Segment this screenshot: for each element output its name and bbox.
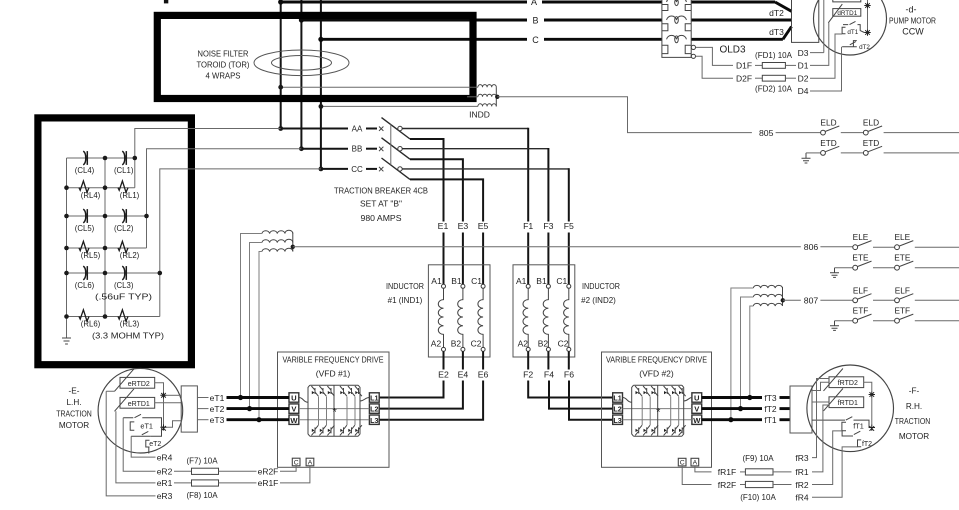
- resistor RL4: [79, 181, 89, 192]
- IND2 phase C coil: [567, 284, 571, 288]
- IND1 phase B coil: [461, 284, 465, 288]
- svg-text:U: U: [291, 394, 297, 403]
- node BB junction: [299, 146, 304, 151]
- svg-text:BB: BB: [352, 145, 363, 154]
- wire E5 column: [482, 233, 484, 285]
- fuse F7: [174, 470, 192, 472]
- wire box to fRTD1: [812, 401, 829, 403]
- svg-text:A: A: [531, 0, 537, 7]
- wire E3 column: [462, 233, 464, 285]
- wire A2 box to fR1F: [695, 466, 712, 472]
- node INDD output: [495, 95, 499, 99]
- svg-text:MOTOR: MOTOR: [899, 432, 929, 441]
- svg-text:L2: L2: [370, 405, 378, 414]
- wire 806 to ELE: [820, 246, 852, 248]
- thermal contact fT1: [812, 417, 869, 431]
- bridge outline: [632, 385, 684, 436]
- wire box to fRTD2: [812, 382, 829, 390]
- contact ETF 2: [895, 318, 900, 323]
- wire eRTD1 to junction box: [155, 402, 182, 404]
- VFD2 bridge group: [623, 385, 692, 436]
- IGBT glyphs bottom row: [635, 425, 686, 435]
- svg-text:fR2F: fR2F: [718, 480, 736, 490]
- snubber enclosure (thick box): [38, 118, 192, 365]
- svg-text:eT1: eT1: [140, 422, 153, 431]
- svg-text:(RL4): (RL4): [81, 191, 101, 200]
- ground at ETE: [830, 268, 839, 278]
- svg-text:ETF: ETF: [894, 306, 910, 316]
- VFD2 terminal L1: [613, 393, 623, 402]
- svg-text:R.H.: R.H.: [906, 402, 922, 411]
- inductor IND1 box: [428, 265, 490, 357]
- inductor INDD coil row1: [478, 85, 496, 88]
- VFD1 bridge group: [299, 385, 370, 436]
- svg-text:(RL2): (RL2): [120, 251, 140, 260]
- RTD fRTD1 box: [829, 397, 864, 408]
- svg-text:eR1: eR1: [157, 478, 173, 488]
- svg-text:U: U: [694, 394, 700, 403]
- node fT3: [747, 395, 752, 400]
- wire ground to ETF: [835, 320, 853, 322]
- fuse F8: [174, 482, 192, 484]
- svg-text:CCW: CCW: [902, 27, 924, 37]
- svg-text:E4: E4: [458, 369, 469, 379]
- IND2 phase A coil: [526, 284, 530, 288]
- VFD1 terminal V: [289, 404, 299, 413]
- svg-text:L1: L1: [613, 394, 621, 403]
- svg-text:B2: B2: [451, 339, 462, 349]
- svg-text:B: B: [532, 16, 538, 26]
- svg-text:(F10) 10A: (F10) 10A: [740, 493, 776, 502]
- fRTD2 diagonal: [824, 369, 843, 391]
- wire fT2 thick from V2: [702, 407, 762, 410]
- wire stub top-left: [164, 0, 168, 3]
- wire ETE out: [915, 267, 959, 269]
- wire snubber mid rail: [104, 158, 106, 317]
- svg-text:(VFD #1): (VFD #1): [316, 369, 351, 379]
- svg-text:F3: F3: [543, 221, 553, 231]
- wire choke 806 left leads: [241, 234, 262, 420]
- wire phase-B vertical feeder: [300, 0, 302, 149]
- svg-text:#2 (IND2): #2 (IND2): [581, 296, 616, 305]
- fuse FD2: [755, 77, 762, 79]
- svg-text:ETE: ETE: [852, 253, 869, 263]
- svg-text:-F-: -F-: [909, 386, 920, 395]
- wire F2 column: [528, 351, 613, 397]
- capacitor CL3: [122, 266, 125, 280]
- svg-text:807: 807: [804, 296, 819, 306]
- choke 806 coil row1: [262, 230, 293, 233]
- breaker pole CC blade: [382, 158, 411, 179]
- capacitor CL6: [83, 266, 86, 280]
- wire BB lower output to E3: [410, 159, 463, 221]
- svg-text:B2: B2: [538, 339, 549, 349]
- VFD2 terminal L3: [613, 415, 623, 424]
- svg-text:F6: F6: [564, 369, 574, 379]
- wire node3 vertical: [160, 169, 321, 317]
- ground at ETD: [802, 153, 811, 163]
- node fT2: [738, 406, 743, 411]
- RH motor circle: [807, 365, 894, 452]
- svg-text:dT1: dT1: [847, 29, 858, 36]
- star mark RH 2: [869, 424, 875, 431]
- VFD2 terminal V: [692, 404, 702, 413]
- choke 807 coil row1: [753, 285, 782, 288]
- wire from phase C to INDD bottom: [321, 105, 478, 107]
- node dots row2: [64, 214, 69, 219]
- wire D1 to dRTD1: [810, 23, 829, 66]
- svg-text:ETD: ETD: [863, 138, 880, 148]
- contact ELD 1: [821, 130, 826, 135]
- wire F1 column: [527, 233, 529, 285]
- inductor IND2 box: [513, 265, 575, 357]
- svg-text:L2: L2: [613, 405, 621, 414]
- wire CC lower output to E5: [410, 179, 483, 221]
- wire 805 from INDD: [497, 97, 752, 133]
- svg-text:E2: E2: [438, 369, 449, 379]
- wire 806 line: [293, 246, 801, 248]
- svg-text:D3: D3: [798, 48, 809, 58]
- svg-text:(F8) 10A: (F8) 10A: [186, 491, 218, 500]
- wire between ELF contacts: [873, 299, 894, 301]
- node on phase A feeder: [278, 85, 283, 90]
- svg-text:eT3: eT3: [210, 415, 225, 425]
- wire star2 to box: [167, 421, 182, 428]
- svg-text:fR3: fR3: [795, 453, 809, 463]
- svg-text:4 WRAPS: 4 WRAPS: [206, 71, 241, 81]
- dRTD1 diagonal: [828, 4, 842, 23]
- eRTD2 diagonal: [115, 369, 134, 391]
- wire between ELD contacts: [841, 132, 863, 134]
- node CC junction: [319, 167, 324, 172]
- contact ELF 1: [853, 298, 858, 303]
- svg-text:ELD: ELD: [820, 118, 836, 128]
- svg-text:E1: E1: [438, 221, 449, 231]
- svg-text:eR2F: eR2F: [258, 467, 279, 477]
- svg-text:(CL2): (CL2): [114, 224, 134, 233]
- node phase B tap: [299, 17, 304, 22]
- VFD1 terminal A box: [306, 458, 314, 466]
- svg-text:D1: D1: [798, 61, 809, 71]
- OLD3 notch left 3: [662, 45, 668, 53]
- wire phase A diagonal into pump box: [775, 2, 792, 11]
- IND1 phase C coil: [481, 284, 485, 288]
- svg-text:(RL3): (RL3): [120, 320, 140, 329]
- svg-text:#1 (IND1): #1 (IND1): [388, 296, 423, 305]
- svg-text:dT2: dT2: [769, 8, 784, 18]
- svg-text:B1: B1: [536, 276, 547, 286]
- svg-text:D2: D2: [798, 73, 809, 83]
- wire fT1 thick from W2: [702, 418, 762, 421]
- wire between ELE contacts: [873, 246, 894, 248]
- cross mark AA: [379, 127, 383, 131]
- thermal contact dT1: [842, 21, 864, 33]
- svg-text:INDUCTOR: INDUCTOR: [386, 282, 424, 291]
- choke 807 coil row3: [753, 303, 782, 306]
- svg-text:eT1: eT1: [210, 393, 225, 403]
- wire ETD out: [884, 152, 959, 154]
- svg-text:L.H.: L.H.: [66, 398, 81, 407]
- svg-text:(3.3 MOHM TYP): (3.3 MOHM TYP): [92, 332, 164, 341]
- wire from phase B to INDD mid (hidden under box border): [467, 96, 478, 98]
- wire OLD3 terminal1 to D1F: [696, 47, 733, 65]
- bridge gray bus rows: [299, 409, 370, 420]
- wire between ETF contacts: [873, 320, 894, 322]
- node eT2: [247, 406, 252, 411]
- svg-text:fT1: fT1: [764, 415, 777, 425]
- svg-text:VARIBLE FREQUENCY DRIVE: VARIBLE FREQUENCY DRIVE: [606, 354, 707, 364]
- svg-text:eRTD1: eRTD1: [128, 401, 150, 408]
- wire eR2: [123, 418, 155, 472]
- bridge center line: [657, 385, 659, 436]
- wire ground to ETE: [835, 267, 853, 269]
- wire ground to ETD: [806, 152, 820, 154]
- OLD3 notch right 3: [685, 45, 691, 53]
- breaker linkage line: [390, 124, 392, 165]
- resistor RL1: [118, 181, 128, 192]
- VFD1 terminal L3: [369, 415, 379, 424]
- svg-text:ETF: ETF: [853, 306, 869, 316]
- svg-text:C2: C2: [558, 339, 569, 349]
- svg-text:eR3: eR3: [157, 491, 173, 501]
- wire D2 to dT1: [810, 34, 842, 78]
- contact ELE 1: [853, 245, 858, 250]
- wire dRTD2 to star1: [861, 0, 868, 29]
- wire fR3: [812, 379, 829, 458]
- svg-text:dRTD1: dRTD1: [837, 10, 857, 17]
- LH motor junction box: [181, 386, 197, 432]
- fRTD1 diagonal: [824, 389, 843, 411]
- svg-text:-E-: -E-: [69, 387, 80, 396]
- wire CC upper output to F5: [402, 168, 569, 170]
- svg-text:INDUCTOR: INDUCTOR: [582, 282, 620, 291]
- wire row1 horizontals: [67, 157, 135, 159]
- contact ETE 2: [895, 265, 900, 270]
- breaker pole AA contact: [398, 126, 402, 130]
- wire F4 column: [548, 351, 612, 408]
- contact ETD 2: [863, 151, 868, 156]
- RTD eRTD1 box: [120, 397, 155, 408]
- svg-text:fR1F: fR1F: [718, 467, 736, 477]
- wire between ETD contacts: [841, 152, 863, 154]
- svg-text:fRTD2: fRTD2: [838, 380, 858, 387]
- wire eR1F to A: [280, 466, 310, 483]
- wire eT1 thick to U: [227, 396, 290, 399]
- svg-text:C: C: [680, 460, 685, 467]
- IND1 phase A coil: [442, 284, 446, 288]
- L1 output curve: [360, 398, 369, 402]
- star mark RH 1: [869, 391, 875, 397]
- svg-text:(RL1): (RL1): [120, 191, 140, 200]
- node choke 806: [291, 245, 295, 249]
- wire eT2 stub: [197, 408, 208, 410]
- svg-text:eRTD2: eRTD2: [128, 381, 150, 388]
- VFD1 terminal L1: [369, 393, 379, 402]
- wire ELD out: [884, 132, 959, 134]
- IGBT glyphs bottom row: [311, 425, 362, 435]
- svg-text:eT2: eT2: [149, 441, 161, 448]
- svg-text:L1: L1: [370, 394, 378, 403]
- choke 807 right tie: [782, 287, 784, 306]
- svg-text:TRACTION: TRACTION: [895, 417, 931, 426]
- contact ELF 2: [895, 298, 900, 303]
- OLD3 heater element A: [667, 0, 687, 2]
- wire 807 to ELF: [820, 299, 852, 301]
- OLD3 notch left 1: [662, 5, 668, 11]
- svg-text:fR2: fR2: [795, 480, 809, 490]
- RH motor junction box: [790, 386, 812, 433]
- fuse F9: [740, 471, 745, 473]
- IND2 phase B coil: [546, 284, 550, 288]
- pump motor dRTD2 box (clipped): [833, 0, 861, 2]
- U output curve: [684, 398, 692, 402]
- svg-text:fRTD1: fRTD1: [838, 400, 858, 407]
- eRTD1 diagonal: [115, 389, 134, 411]
- U input curve: [299, 398, 308, 403]
- svg-text:eR4: eR4: [157, 452, 173, 462]
- svg-text:F1: F1: [523, 221, 533, 231]
- RTD eRTD2 box: [120, 377, 155, 388]
- wire 807 line: [783, 299, 801, 301]
- wire fT1 to box: [780, 418, 791, 421]
- wire phase-C vertical feeder: [320, 0, 322, 169]
- wire row2 resistor horizontals: [67, 247, 147, 249]
- node phase A tap: [278, 0, 283, 5]
- breaker pole BB contact: [398, 147, 402, 151]
- svg-text:ELD: ELD: [863, 118, 879, 128]
- VFD2 terminal L2: [613, 404, 623, 413]
- wire ELE out: [915, 246, 959, 248]
- node eT1: [238, 395, 243, 400]
- svg-text:TRACTION: TRACTION: [56, 409, 92, 418]
- wire C2 box to fR2F: [682, 466, 711, 485]
- OLD3 terminal 2: [691, 54, 695, 58]
- wire eT3 stub: [197, 419, 208, 421]
- wire ETF out: [915, 320, 959, 322]
- wire INDD right tie: [495, 87, 497, 106]
- wire phase C diagonal into pump box: [783, 27, 792, 40]
- svg-text:fR1: fR1: [795, 467, 809, 477]
- wire from phase A to INDD top: [281, 86, 478, 88]
- svg-text:fT2: fT2: [764, 404, 777, 414]
- svg-text:C1: C1: [471, 276, 482, 286]
- svg-text:dT3: dT3: [769, 27, 784, 37]
- inductor INDD coil row3: [478, 104, 496, 107]
- VFD2 terminal C box: [678, 458, 686, 466]
- LH motor circle: [98, 368, 183, 453]
- star mark LH 1: [160, 392, 166, 398]
- capacitor CL1: [122, 151, 125, 165]
- svg-text:806: 806: [804, 242, 819, 252]
- choke 807 coil row2: [753, 294, 782, 297]
- svg-text:L3: L3: [370, 416, 378, 425]
- wire fR1 to fRTD1: [812, 405, 829, 472]
- capacitor CL5: [83, 209, 86, 223]
- wire fR2 to fT1: [812, 431, 842, 485]
- OLD3 notch right 2: [685, 24, 691, 31]
- wire D4 to dT2: [810, 47, 842, 91]
- wire row2 horizontals: [67, 215, 147, 217]
- OLD3 notch right 1: [685, 5, 691, 11]
- toroid TOR outer ellipse: [254, 50, 349, 76]
- wire eR4: [131, 436, 155, 457]
- svg-text:fR4: fR4: [795, 493, 809, 503]
- svg-text:NOISE FILTER: NOISE FILTER: [198, 49, 249, 59]
- svg-text:fT1: fT1: [853, 422, 864, 431]
- svg-text:E6: E6: [478, 369, 489, 379]
- wire between ETE contacts: [873, 267, 894, 269]
- svg-text:A1: A1: [516, 276, 527, 286]
- svg-text:TRACTION BREAKER 4CB: TRACTION BREAKER 4CB: [334, 186, 428, 196]
- svg-text:fT2: fT2: [862, 441, 872, 448]
- svg-text:eR2: eR2: [157, 467, 173, 477]
- svg-text:D2F: D2F: [736, 73, 752, 83]
- svg-text:(RL6): (RL6): [81, 320, 101, 329]
- wire E4 column: [379, 351, 463, 408]
- OLD3 terminal 1: [691, 45, 695, 49]
- OLD3 heater element C: [667, 35, 687, 39]
- svg-text:ELE: ELE: [894, 232, 910, 242]
- wire row3 horizontals: [67, 272, 160, 274]
- svg-text:-d-: -d-: [906, 5, 917, 15]
- L1 input curve: [623, 398, 632, 403]
- svg-text:A1: A1: [431, 276, 442, 286]
- VFD1 box: [278, 352, 390, 467]
- resistor RL2: [118, 241, 128, 252]
- IGBT glyphs top row: [311, 386, 362, 396]
- bridge gray verticals: [642, 397, 679, 426]
- wire snubber left rail: [66, 158, 68, 338]
- svg-text:E5: E5: [478, 221, 489, 231]
- wire fR4 to fT2: [812, 447, 858, 497]
- RTD fRTD2 box: [829, 377, 864, 388]
- OLD3 heater element B: [667, 16, 687, 20]
- breaker pole BB blade: [382, 138, 411, 159]
- wire fT3 to box: [780, 396, 791, 399]
- node on phase C feeder: [319, 104, 324, 109]
- wire 805 to ELD: [776, 132, 821, 134]
- VFD1 terminal U: [289, 393, 299, 402]
- svg-text:(F7) 10A: (F7) 10A: [186, 456, 218, 465]
- svg-text:*: *: [656, 407, 661, 419]
- svg-text:(FD1) 10A: (FD1) 10A: [755, 51, 793, 60]
- VFD1 terminal C box: [292, 458, 300, 466]
- node AA junction: [278, 126, 283, 131]
- svg-text:(VFD #2): (VFD #2): [639, 369, 674, 379]
- svg-text:D1F: D1F: [736, 61, 752, 71]
- wire F3 column: [547, 233, 549, 285]
- contact ELE 2: [895, 245, 900, 250]
- wire row1 resistor horizontals: [67, 187, 135, 189]
- overload OLD3 outer case: [662, 0, 691, 57]
- svg-text:L3: L3: [613, 416, 621, 425]
- wire F5 column: [568, 233, 570, 285]
- ground snubber: [62, 338, 71, 344]
- wire phase B horizontal: [301, 19, 527, 22]
- contact ELD 2: [863, 130, 868, 135]
- svg-text:805: 805: [759, 128, 774, 138]
- wire fRTD2 to star1 to star2: [864, 382, 872, 424]
- fuse FD1: [755, 64, 762, 66]
- svg-text:(CL5): (CL5): [75, 224, 95, 233]
- wire row3 resistor horizontals: [67, 316, 160, 318]
- node choke 807: [781, 298, 785, 302]
- pump motor circle: [814, 0, 887, 55]
- svg-text:ETD: ETD: [820, 138, 837, 148]
- fuse F10: [740, 484, 745, 486]
- wire OLD3 terminal2 to D2F: [696, 56, 733, 78]
- contact ETF 1: [853, 318, 858, 323]
